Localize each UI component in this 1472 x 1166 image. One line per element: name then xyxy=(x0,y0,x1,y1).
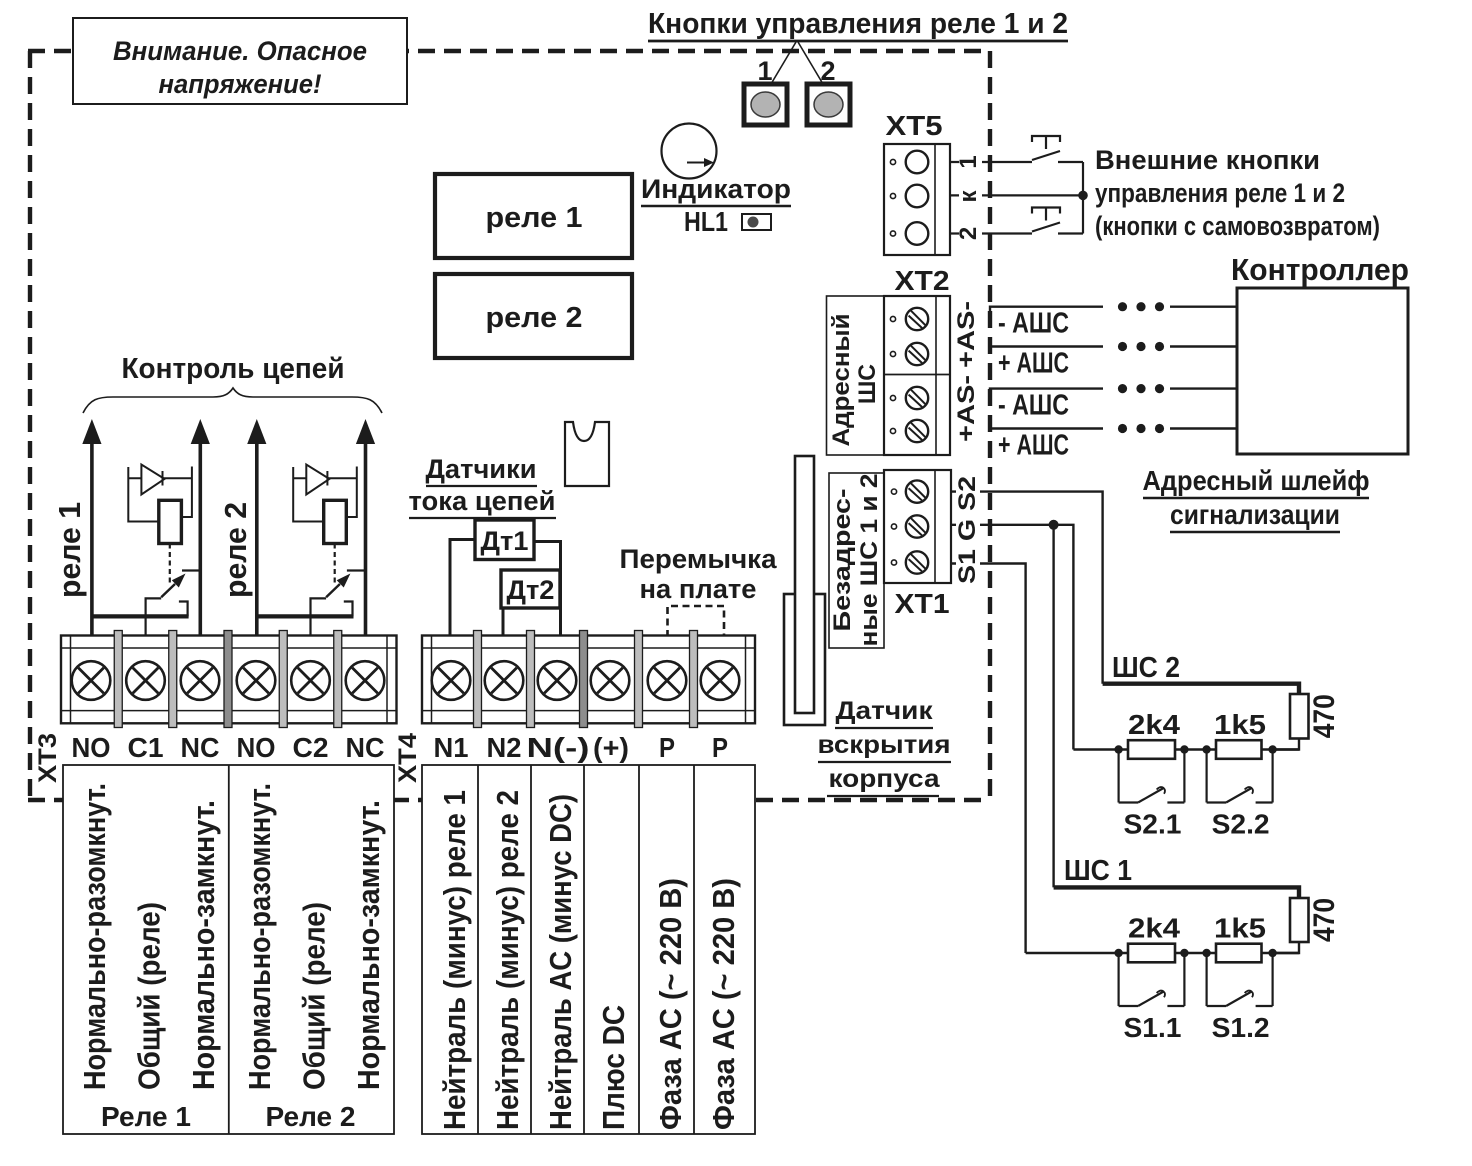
svg-text:(кнопки с самовозвратом): (кнопки с самовозвратом) xyxy=(1095,211,1380,241)
label: Индикатор HL1 xyxy=(641,174,791,237)
switch S1.2 xyxy=(1207,953,1273,1043)
svg-text:- АШС: - АШС xyxy=(998,390,1069,422)
pin label 1 xyxy=(955,147,982,177)
terminal block XT1 xyxy=(884,470,951,619)
resistor 1k5 xyxy=(1214,913,1266,963)
external push button SB1 xyxy=(1032,136,1083,195)
svg-text:Индикатор: Индикатор xyxy=(641,174,791,204)
label box: Адресный ШС xyxy=(827,296,885,455)
notched component xyxy=(565,422,609,486)
svg-text:- АШС: - АШС xyxy=(998,308,1069,340)
resistor 470 (ШС 1) xyxy=(1290,898,1341,942)
svg-text:+AS-: +AS- xyxy=(953,375,980,442)
relay contact group K2 xyxy=(257,465,365,637)
resistor 2k4 xyxy=(1128,913,1180,963)
svg-text:S2.1: S2.1 xyxy=(1124,809,1182,840)
pin labels S1 G S2 xyxy=(954,474,981,586)
svg-text:2k4: 2k4 xyxy=(1128,709,1180,740)
svg-text:Дт1: Дт1 xyxy=(481,526,529,556)
table XT4 descriptions xyxy=(422,765,755,1134)
label: Датчик вскрытия корпуса xyxy=(818,697,952,796)
resistor 470 (ШС 2) xyxy=(1290,694,1341,739)
terminal labels NO C1 NC NO C2 NC xyxy=(72,732,385,763)
jumper (dashed) xyxy=(668,606,725,637)
wire Дт1 to N(-) xyxy=(534,542,561,638)
svg-text:Датчик: Датчик xyxy=(836,697,934,725)
sense arrow 3 xyxy=(247,419,266,636)
svg-text:+ АШС: + АШС xyxy=(998,348,1069,380)
terminal strip XT4 xyxy=(422,631,755,728)
switch S2.2 xyxy=(1207,750,1273,840)
svg-text:Общий (реле): Общий (реле) xyxy=(132,902,167,1090)
svg-text:Реле 1: Реле 1 xyxy=(101,1101,191,1132)
svg-text:S1.2: S1.2 xyxy=(1212,1012,1270,1043)
wire G common xyxy=(951,520,1073,888)
svg-text:N1: N1 xyxy=(434,732,469,763)
svg-text:к: к xyxy=(955,190,982,203)
svg-text:управления реле 1 и 2: управления реле 1 и 2 xyxy=(1095,178,1345,208)
table XT3 descriptions xyxy=(63,765,394,1134)
svg-text:Плюс DC: Плюс DC xyxy=(596,1005,631,1130)
svg-text:S1 G S2: S1 G S2 xyxy=(954,476,981,584)
svg-text:Датчики: Датчики xyxy=(426,454,537,484)
svg-text:Реле 2: Реле 2 xyxy=(266,1101,356,1132)
wire XT5-к common xyxy=(951,194,1083,196)
svg-text:реле 1: реле 1 xyxy=(486,202,583,234)
svg-text:S1.1: S1.1 xyxy=(1124,1012,1182,1043)
sense arrow 1 xyxy=(82,419,101,636)
svg-text:C1: C1 xyxy=(128,732,164,763)
terminal labels N1 N2 N(-) (+) P P xyxy=(434,732,729,763)
svg-text:ШС 2: ШС 2 xyxy=(1112,652,1180,684)
svg-text:Кнопки управления реле 1 и 2: Кнопки управления реле 1 и 2 xyxy=(648,8,1068,40)
svg-text:470: 470 xyxy=(1308,694,1341,738)
svg-text:напряжение!: напряжение! xyxy=(159,69,322,99)
button 2 (on-board) xyxy=(807,56,850,125)
wire АШС 3 xyxy=(990,384,1237,422)
svg-text:Нейтраль (минус) реле 2: Нейтраль (минус) реле 2 xyxy=(490,790,525,1130)
svg-text:Адресный: Адресный xyxy=(828,314,855,447)
svg-text:S2.2: S2.2 xyxy=(1212,809,1270,840)
svg-text:XT1: XT1 xyxy=(895,588,950,619)
brace xyxy=(83,388,382,413)
svg-text:XT4: XT4 xyxy=(394,733,422,783)
wire АШС 2 xyxy=(990,342,1237,380)
label: Перемычка на плате xyxy=(620,544,778,604)
svg-text:сигнализации: сигнализации xyxy=(1170,499,1340,530)
pin label 2 xyxy=(955,219,982,249)
wire S2 to ШС2 loop xyxy=(951,492,1103,684)
relay contact group K1 xyxy=(92,465,200,637)
terminal block XT2 xyxy=(884,265,950,455)
switch S1.1 xyxy=(1119,953,1185,1043)
svg-text:Безадрес-: Безадрес- xyxy=(829,488,856,631)
wire XT5-1 to external button xyxy=(951,161,1032,163)
svg-text:Дт2: Дт2 xyxy=(507,575,555,605)
svg-text:XT5: XT5 xyxy=(886,110,943,141)
svg-text:1: 1 xyxy=(955,155,982,168)
svg-text:Контроль цепей: Контроль цепей xyxy=(122,353,345,385)
wire АШС 1 xyxy=(990,302,1237,340)
label box: Безадресные ШС 1 и 2 xyxy=(829,473,884,648)
svg-text:Внешние кнопки: Внешние кнопки xyxy=(1095,145,1320,175)
current sensor Дт1 xyxy=(475,520,534,560)
tamper sensor (датчик вскрытия) xyxy=(784,456,825,725)
svg-text:вскрытия: вскрытия xyxy=(818,731,951,759)
svg-text:Общий (реле): Общий (реле) xyxy=(297,902,332,1090)
svg-text:P: P xyxy=(712,732,728,763)
svg-text:тока цепей: тока цепей xyxy=(409,486,556,516)
svg-text:Контроллер: Контроллер xyxy=(1231,252,1409,287)
wire Дт1 to N1 xyxy=(450,540,475,638)
board outline (dashed) xyxy=(28,51,990,800)
svg-text:Адресный шлейф: Адресный шлейф xyxy=(1143,465,1370,496)
svg-text:NO: NO xyxy=(72,732,111,763)
resistor 2k4 xyxy=(1128,709,1180,759)
svg-text:+AS-: +AS- xyxy=(953,301,980,368)
wire ШС 2 (loop line) xyxy=(1103,684,1299,694)
svg-text:ШС 1: ШС 1 xyxy=(1064,855,1132,887)
svg-text:Нормально-замкнут.: Нормально-замкнут. xyxy=(351,800,386,1090)
wire АШС 4 xyxy=(990,424,1237,462)
pin label к xyxy=(955,182,982,209)
svg-text:Нормально-разомкнут.: Нормально-разомкнут. xyxy=(77,783,112,1090)
switch S2.1 xyxy=(1119,750,1185,840)
svg-text:ные ШС 1 и 2: ные ШС 1 и 2 xyxy=(856,474,883,647)
resistor 1k5 xyxy=(1214,709,1266,759)
current sensor Дт2 xyxy=(501,570,560,608)
svg-text:на плате: на плате xyxy=(640,574,757,604)
indicator HL1 circle xyxy=(662,124,717,179)
svg-text:N(-): N(-) xyxy=(527,732,590,763)
svg-text:XT2: XT2 xyxy=(895,265,950,296)
svg-text:Перемычка: Перемычка xyxy=(620,544,778,574)
svg-text:P: P xyxy=(659,732,675,763)
svg-text:Фаза AC (~ 220 В): Фаза AC (~ 220 В) xyxy=(706,878,741,1130)
terminal strip XT3 xyxy=(61,631,397,728)
external push button SB2 xyxy=(1032,195,1083,233)
svg-text:XT3: XT3 xyxy=(34,733,62,783)
svg-text:C2: C2 xyxy=(293,732,329,763)
wire chain ШС 1 xyxy=(1026,942,1299,957)
sense arrow 4 xyxy=(356,419,375,636)
svg-text:Нейтраль AC (минус DC): Нейтраль AC (минус DC) xyxy=(543,794,578,1130)
wire chain ШС 2 xyxy=(1073,739,1299,754)
junction dot on к wire xyxy=(1078,191,1088,201)
svg-text:1k5: 1k5 xyxy=(1214,709,1266,740)
svg-text:(+): (+) xyxy=(593,732,629,763)
warning note box xyxy=(73,18,407,104)
svg-text:NC: NC xyxy=(346,732,385,763)
button 1 (on-board) xyxy=(744,56,787,125)
svg-text:470: 470 xyxy=(1308,898,1341,942)
svg-text:+ АШС: + АШС xyxy=(998,430,1069,462)
svg-text:N2: N2 xyxy=(487,732,522,763)
svg-text:Фаза AC (~ 220 В): Фаза AC (~ 220 В) xyxy=(653,878,688,1130)
svg-text:HL1: HL1 xyxy=(684,206,728,237)
relay module box реле 2 xyxy=(435,274,632,358)
svg-text:NO: NO xyxy=(237,732,276,763)
sense arrow 2 xyxy=(191,419,210,636)
svg-text:Нормально-разомкнут.: Нормально-разомкнут. xyxy=(242,783,277,1090)
svg-text:реле 1: реле 1 xyxy=(52,502,87,598)
svg-text:корпуса: корпуса xyxy=(829,765,941,793)
svg-text:NC: NC xyxy=(181,732,220,763)
label: Внешние кнопки управления xyxy=(1095,145,1380,241)
wire S1 to ШС1 loop xyxy=(951,564,1026,954)
relay module box реле 1 xyxy=(435,174,632,258)
svg-text:Нейтраль (минус) реле 1: Нейтраль (минус) реле 1 xyxy=(437,790,472,1130)
controller box xyxy=(1231,252,1409,454)
wire ШС 1 (loop line) xyxy=(1054,887,1299,898)
label: Адресный шлейф сигнализации xyxy=(1143,465,1370,532)
svg-text:Внимание. Опасное: Внимание. Опасное xyxy=(113,36,367,66)
svg-text:1k5: 1k5 xyxy=(1214,913,1266,944)
svg-text:Нормально-замкнут.: Нормально-замкнут. xyxy=(186,800,221,1090)
svg-text:ШС: ШС xyxy=(854,364,881,404)
label: Датчики тока цепей xyxy=(409,454,557,518)
svg-text:реле 2: реле 2 xyxy=(486,302,583,334)
terminal block XT5 xyxy=(884,110,950,255)
wire XT5-2 to external button xyxy=(951,232,1032,234)
svg-text:2: 2 xyxy=(955,227,982,240)
svg-text:реле 2: реле 2 xyxy=(218,502,253,598)
wire Дт2 to N2 xyxy=(502,608,505,637)
label: Кнопки управления реле 1 и 2 xyxy=(648,8,1068,84)
svg-text:2k4: 2k4 xyxy=(1128,913,1180,944)
